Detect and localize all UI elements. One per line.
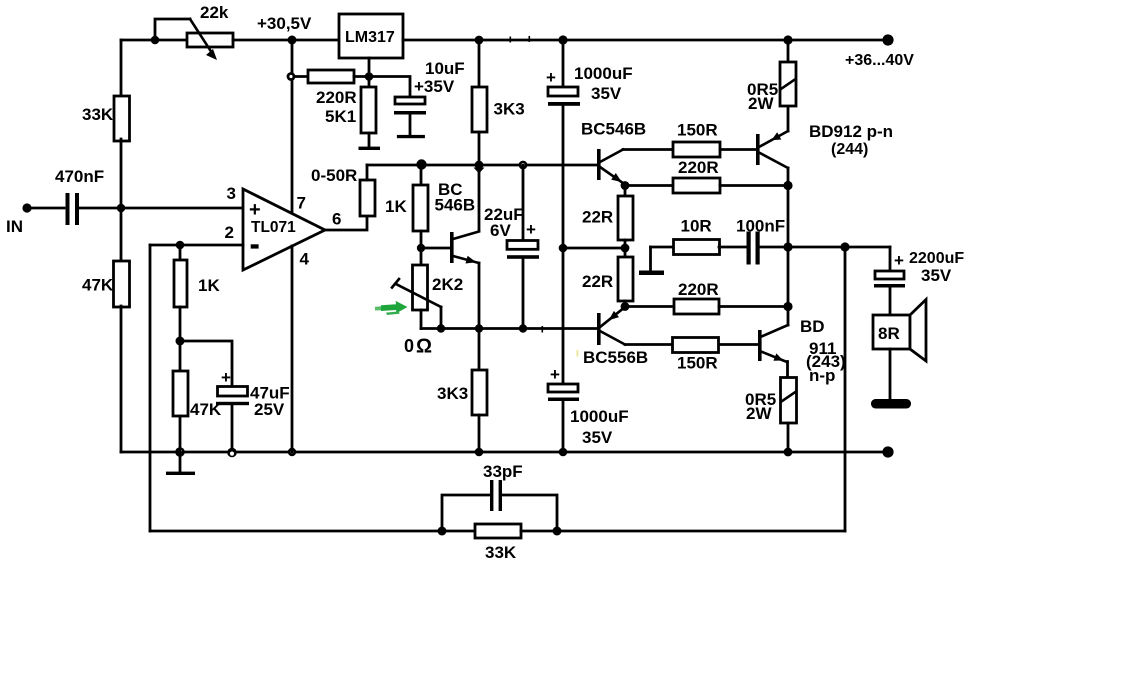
node 220R tap (open circle) [287, 72, 296, 81]
svg-text:22k: 22k [200, 3, 229, 22]
wire 100nF to output node [760, 246, 789, 249]
svg-text:35V: 35V [591, 84, 622, 103]
svg-text:+35V: +35V [414, 77, 455, 96]
resistor 47K upper [82, 261, 130, 307]
wire collector to 150R lower [625, 343, 675, 346]
svg-text:150R: 150R [677, 354, 718, 373]
svg-text:Ω: Ω [416, 336, 432, 358]
wire +36V rail [403, 39, 888, 42]
wire 3K3 top [478, 40, 481, 87]
capacitor 470nF [55, 167, 104, 225]
svg-text:2W: 2W [748, 94, 774, 113]
svg-text:150R: 150R [677, 121, 718, 140]
wire feedback vertical left [149, 245, 152, 531]
wire 220R right to ADJ node [354, 75, 369, 78]
svg-text:470nF: 470nF [55, 167, 104, 186]
resistor 33K feedback [475, 524, 521, 562]
tick mark on 0ohm line [542, 326, 544, 333]
ground main [166, 452, 195, 475]
svg-text:2: 2 [225, 223, 234, 242]
svg-text:35V: 35V [921, 266, 952, 285]
node 3K3/ground rail [475, 448, 484, 457]
svg-text:33K: 33K [82, 105, 114, 124]
wire IN to C 470nF [29, 207, 64, 210]
wire 2K2 bottom [420, 310, 423, 329]
node pin2/1K [176, 241, 185, 250]
resistor 150R upper [673, 121, 720, 158]
node main ground [175, 447, 185, 457]
svg-text:4: 4 [300, 250, 310, 269]
resistor 10R [651, 217, 720, 255]
wire ADJ to 10uF [369, 77, 410, 98]
capacitor 100nF [736, 217, 785, 265]
svg-text:33K: 33K [485, 543, 517, 562]
svg-text:(244): (244) [831, 141, 868, 158]
resistor 5K1 [325, 77, 376, 148]
node 22R/220R/emitter lower [621, 302, 630, 311]
capacitor 47uF 25V [180, 341, 290, 449]
resistor 0R5 2W upper [747, 40, 796, 113]
svg-text:0-50R: 0-50R [311, 166, 357, 185]
speaker 8R [873, 300, 926, 362]
resistor 2K2 trimmer [392, 265, 463, 329]
wire C470nF to input node [78, 207, 121, 210]
wire LM317 ADJ pin [368, 58, 371, 77]
regulator U2 LM317 [339, 14, 403, 58]
capacitor 1000uF 35V lower [548, 248, 629, 452]
resistor 22R upper [582, 186, 633, 249]
wire 0-50R top to drive line [366, 165, 369, 180]
svg-text:+: + [221, 368, 231, 387]
svg-text:8R: 8R [878, 324, 900, 343]
node drive/1K [416, 159, 426, 169]
resistor 150R lower [673, 338, 719, 373]
node feedback takeoff [840, 242, 849, 251]
wire 220R to BD912 collector node [720, 184, 788, 187]
resistor 220R upper [673, 158, 720, 193]
svg-text:220R: 220R [678, 280, 719, 299]
svg-text:546B: 546B [435, 196, 476, 215]
svg-text:n-p: n-p [809, 366, 835, 385]
capacitor 10uF +35V [394, 59, 465, 135]
wire feedback vertical right [844, 247, 847, 531]
wire 47K to ground rail [120, 306, 123, 452]
resistor 3K3 upper [472, 87, 525, 132]
node drive/3K3 [475, 161, 484, 170]
node 1000uF mid rail [559, 244, 568, 253]
wire feedback bottom right [521, 530, 845, 533]
wire Q-bias emitter down [478, 263, 481, 329]
node 0R5/ground rail [784, 448, 793, 457]
node bias emitter/0ohm [475, 324, 483, 332]
wire 220R left [294, 75, 308, 78]
wire mid rail to 22R junction [563, 247, 625, 250]
wire 33K top vertical [120, 40, 123, 96]
node LM317 ADJ junction [365, 72, 374, 81]
transistor Q BC546B vbe-multiplier [421, 180, 479, 264]
wire op-amp pin 4 [291, 246, 294, 452]
svg-text:3K3: 3K3 [494, 100, 525, 119]
svg-text:BD912 p-n: BD912 p-n [809, 122, 893, 141]
node 33pF left [438, 527, 447, 536]
transistor Q BC546B upper driver [581, 120, 646, 185]
capacitor 33pF [442, 462, 557, 531]
resistor 3K3 lower [437, 329, 487, 453]
resistor 0R5 2W lower [745, 378, 797, 453]
input terminal IN [6, 203, 32, 236]
node rail 1000uF [558, 35, 567, 44]
svg-text:22R: 22R [582, 208, 613, 227]
wire 1K top [420, 165, 423, 185]
svg-text:TL071: TL071 [251, 219, 296, 236]
svg-text:25V: 25V [254, 400, 285, 419]
svg-text:2K2: 2K2 [432, 275, 463, 294]
node rail 3K3 [475, 36, 484, 45]
node drive/22uF (open circle) [519, 161, 528, 170]
ground speaker [871, 399, 911, 409]
svg-text:6V: 6V [490, 221, 511, 240]
svg-text:+: + [550, 365, 560, 384]
svg-text:47K: 47K [82, 276, 114, 295]
node wiper/0ohm [437, 324, 445, 332]
transistor Q1 BD912 p-n (244) [756, 106, 893, 186]
svg-text:22R: 22R [582, 272, 613, 291]
node 22k left junction [151, 36, 160, 45]
svg-text:1000uF: 1000uF [574, 64, 633, 83]
svg-text:3K3: 3K3 [437, 384, 468, 403]
terminal +36...40V [845, 34, 914, 69]
wire emitter node to 220R [625, 184, 673, 187]
wire 22k to +30,5V node [233, 39, 339, 42]
svg-text:1K: 1K [198, 276, 220, 295]
node 22uF/0ohm [519, 324, 527, 332]
svg-text:7: 7 [297, 194, 306, 213]
svg-text:1K: 1K [385, 197, 407, 216]
svg-text:10uF: 10uF [425, 59, 465, 78]
wire 0-ohm node line [421, 327, 597, 330]
node output/100nF [783, 242, 792, 251]
wire 2K2 top [420, 248, 423, 265]
wire output vertical [787, 186, 790, 307]
node 33pF right [553, 527, 562, 536]
transistor Q2 BD911 (243) n-p [758, 307, 846, 386]
resistor 33K [82, 96, 130, 141]
node Q-bias base [417, 244, 425, 252]
node pin4/rail (open circle) [288, 448, 296, 456]
wire collector to 150R [623, 148, 673, 151]
capacitor 1000uF 35V upper [546, 40, 633, 248]
transistor Q BC556B lower driver [583, 307, 648, 367]
ground 5K1 [359, 147, 381, 150]
svg-text:BD: BD [800, 317, 825, 336]
svg-text:+: + [546, 68, 556, 87]
resistor 220R regulator [308, 70, 357, 107]
svg-text:+: + [249, 199, 261, 221]
ground 10R [639, 247, 664, 275]
node 1K/47K/47uF [176, 337, 185, 346]
resistor 220R lower [625, 280, 788, 314]
svg-text:BC546B: BC546B [581, 120, 646, 139]
wire output node to speaker branch [788, 246, 890, 249]
op-amp U1 TL071 [225, 184, 342, 270]
wire 3K3 to Vbe multiplier collector [478, 132, 481, 231]
wire speaker to ground [889, 349, 892, 400]
ground 10uF [397, 135, 425, 138]
resistor 22R lower [582, 248, 633, 307]
svg-text:+36...40V: +36...40V [845, 52, 914, 69]
artifact yellow tick [577, 350, 579, 357]
svg-text:+30,5V: +30,5V [257, 14, 312, 33]
wire 22k wiper loop [155, 19, 190, 40]
wire input node to op-amp pin 3 [121, 207, 243, 210]
svg-text:2200uF: 2200uF [909, 250, 964, 267]
svg-text:2W: 2W [746, 404, 772, 423]
resistor 22k trimmer body [187, 3, 233, 47]
svg-text:100nF: 100nF [736, 217, 785, 236]
node input junction [117, 204, 126, 213]
capacitor 22uF 6V [484, 165, 539, 329]
resistor 1K feedback shunt [174, 245, 220, 341]
svg-text:35V: 35V [582, 428, 613, 447]
svg-text:33pF: 33pF [483, 462, 523, 481]
node BD912 collector/220R [783, 181, 792, 190]
node rail 0R5 [783, 35, 792, 44]
green adjustment arrow [375, 301, 408, 315]
wire op-amp output to 0-50R [325, 216, 367, 230]
wire 22k wiper arrow diagonal [190, 19, 217, 60]
svg-text:220R: 220R [316, 88, 357, 107]
node +30,5V [257, 14, 312, 45]
svg-text:1000uF: 1000uF [570, 407, 629, 426]
svg-text:IN: IN [6, 217, 23, 236]
terminal ground rail right [882, 446, 893, 457]
wire 150R to BD911 base [719, 343, 758, 346]
node output/220R lower [783, 302, 792, 311]
wire 33K to input node [120, 139, 123, 260]
resistor 0-50R [311, 166, 375, 216]
wire +30V rail left segment [121, 39, 187, 42]
svg-text:+: + [526, 220, 536, 239]
wire feedback bottom left [150, 530, 475, 533]
svg-text:6: 6 [332, 210, 341, 229]
wire pin 7 supply [291, 40, 294, 213]
svg-text:5K1: 5K1 [325, 107, 356, 126]
resistor 1K bias [385, 185, 428, 231]
wire 10R to 100nF [719, 246, 747, 249]
node 22R mid [621, 244, 630, 253]
svg-text:0: 0 [404, 336, 414, 356]
wire ground rail [121, 451, 888, 454]
node 47uF/rail (open circle) [227, 448, 237, 458]
svg-text:+: + [894, 251, 904, 270]
wire drive line [367, 164, 597, 167]
svg-text:BC556B: BC556B [583, 348, 648, 367]
svg-text:220R: 220R [678, 158, 719, 177]
wire 1K bottom to base node [420, 231, 423, 248]
resistor 47K lower [173, 341, 222, 452]
wire 150R to BD912 base [720, 148, 756, 151]
svg-text:LM317: LM317 [345, 29, 395, 46]
tick marks on rail [510, 36, 531, 43]
svg-text:3: 3 [227, 184, 236, 203]
artifact small blue arrow [474, 168, 485, 174]
node emitter/220R/22R [621, 181, 630, 190]
capacitor 2200uF 35V [874, 247, 964, 315]
node 1000uF/ground rail [559, 448, 568, 457]
svg-text:10R: 10R [681, 217, 712, 236]
wire op-amp pin 2 [150, 244, 243, 247]
